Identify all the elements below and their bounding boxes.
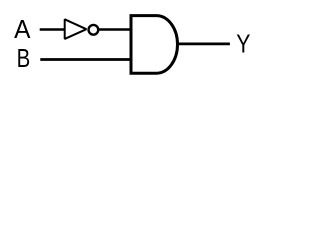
node B label	[17, 44, 31, 73]
svg-text:B: B	[17, 44, 31, 73]
node A label	[14, 15, 30, 44]
wire inverter to AND gate	[99, 28, 131, 31]
wire output	[177, 42, 230, 45]
svg-text:Y: Y	[236, 30, 250, 58]
node Y label	[236, 30, 250, 58]
wire B input	[40, 58, 131, 61]
inverter U1 bubble	[89, 25, 99, 35]
svg-text:A: A	[14, 15, 30, 44]
AND gate U2	[131, 16, 178, 74]
wire A input	[40, 28, 64, 31]
inverter U1 triangle	[65, 19, 87, 39]
